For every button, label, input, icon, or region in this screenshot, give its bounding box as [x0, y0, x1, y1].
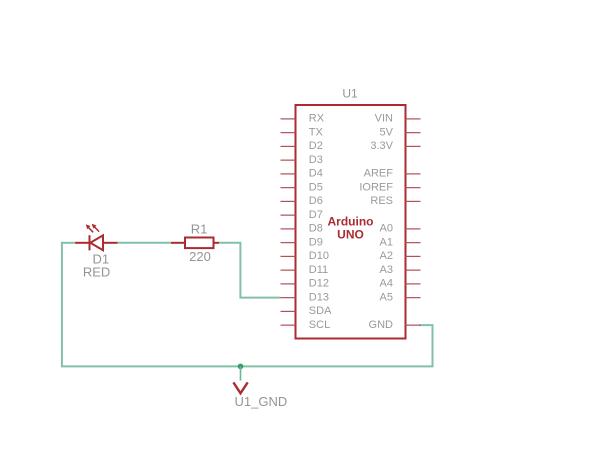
svg-text:A1: A1: [380, 236, 393, 248]
U1 right pin labels: [359, 113, 393, 331]
svg-text:U1: U1: [342, 87, 358, 101]
svg-text:SCL: SCL: [309, 319, 330, 331]
svg-text:5V: 5V: [380, 126, 394, 138]
svg-text:D9: D9: [309, 236, 323, 248]
svg-text:D7: D7: [309, 209, 323, 221]
svg-text:A5: A5: [380, 291, 393, 303]
svg-text:D4: D4: [309, 168, 323, 180]
svg-text:SDA: SDA: [309, 305, 332, 317]
svg-text:AREF: AREF: [364, 168, 394, 180]
wire: left rail down and bottom rail to GND corner: [62, 242, 433, 367]
resistor R1: [171, 238, 219, 249]
svg-text:220: 220: [189, 249, 211, 264]
svg-text:D11: D11: [309, 264, 328, 276]
svg-text:D2: D2: [309, 140, 323, 152]
svg-text:IOREF: IOREF: [359, 181, 393, 193]
svg-text:VIN: VIN: [375, 113, 393, 125]
svg-text:U1_GND: U1_GND: [235, 394, 288, 409]
svg-text:3.3V: 3.3V: [370, 140, 393, 152]
svg-text:UNO: UNO: [337, 228, 364, 242]
svg-text:D10: D10: [309, 250, 329, 262]
svg-text:D8: D8: [309, 223, 323, 235]
svg-text:D3: D3: [309, 154, 323, 166]
U1 right pin stubs: [406, 119, 421, 325]
U1 left pin labels: [309, 113, 332, 331]
svg-text:RES: RES: [370, 195, 393, 207]
svg-text:D5: D5: [309, 181, 323, 193]
wire: resistor R1 right to Arduino D13: [219, 243, 281, 298]
svg-text:Arduino: Arduino: [328, 215, 374, 229]
LED D1 emission arrows: [86, 224, 99, 233]
svg-text:D12: D12: [309, 278, 329, 290]
svg-text:D13: D13: [309, 291, 329, 303]
svg-text:A0: A0: [380, 223, 393, 235]
svg-text:RX: RX: [309, 113, 325, 125]
svg-text:A4: A4: [380, 278, 393, 290]
svg-text:RED: RED: [83, 264, 110, 279]
wire: LED anode to resistor R1 left: [117, 242, 171, 244]
svg-text:D6: D6: [309, 195, 323, 207]
wire: net LED cathode to left rail: [62, 242, 76, 244]
svg-text:A3: A3: [380, 264, 393, 276]
svg-text:TX: TX: [309, 126, 324, 138]
ground U1_GND arrow: [233, 382, 247, 393]
svg-text:R1: R1: [191, 222, 208, 237]
wire: ground stem: [240, 366, 242, 380]
U1 left pin stubs: [281, 119, 296, 325]
svg-text:A2: A2: [380, 250, 393, 262]
Arduino UNO U1 body: [296, 105, 406, 339]
node: junction U1_GND on bottom rail: [238, 364, 244, 370]
LED D1: [75, 235, 117, 250]
svg-text:GND: GND: [369, 319, 394, 331]
